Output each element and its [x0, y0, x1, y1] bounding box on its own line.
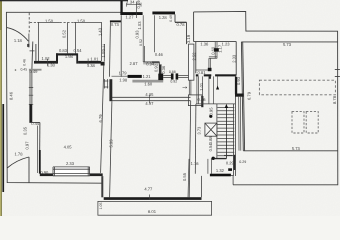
- svg-text:0.88: 0.88: [169, 70, 176, 74]
- svg-text:1.36: 1.36: [200, 41, 209, 46]
- svg-text:0.49: 0.49: [136, 0, 141, 8]
- svg-text:0.46: 0.46: [198, 97, 207, 102]
- svg-text:0.83: 0.83: [59, 48, 68, 53]
- svg-text:8.78: 8.78: [332, 95, 337, 104]
- svg-text:0.21: 0.21: [102, 44, 106, 51]
- svg-text:1.60: 1.60: [144, 82, 153, 87]
- svg-text:1.43: 1.43: [97, 27, 102, 36]
- svg-text:0.54: 0.54: [74, 48, 83, 53]
- svg-text:0.46: 0.46: [22, 59, 26, 66]
- svg-text:1.78: 1.78: [15, 152, 24, 157]
- svg-text:0.36: 0.36: [161, 65, 166, 74]
- svg-text:1.16: 1.16: [191, 161, 200, 166]
- svg-text:0.90: 0.90: [40, 170, 49, 175]
- svg-text:6.79: 6.79: [247, 91, 252, 100]
- svg-text:0.92: 0.92: [153, 63, 158, 72]
- svg-text:0.54: 0.54: [208, 143, 213, 152]
- svg-text:3.73: 3.73: [197, 126, 202, 135]
- svg-text:6.79: 6.79: [98, 114, 103, 123]
- svg-text:4.77: 4.77: [144, 187, 153, 192]
- svg-text:1.05: 1.05: [99, 203, 103, 210]
- svg-text:1.02: 1.02: [42, 56, 51, 61]
- svg-text:5.33: 5.33: [108, 139, 113, 148]
- svg-text:1.18: 1.18: [14, 38, 23, 43]
- svg-text:0.73: 0.73: [111, 22, 120, 27]
- svg-text:1.50: 1.50: [45, 18, 54, 23]
- svg-text:0.78: 0.78: [177, 22, 186, 27]
- svg-text:2.33: 2.33: [66, 161, 75, 166]
- svg-text:1.01: 1.01: [90, 57, 99, 62]
- svg-text:4.05: 4.05: [64, 144, 73, 149]
- svg-text:2.52: 2.52: [191, 52, 196, 61]
- svg-text:1.28: 1.28: [159, 15, 168, 20]
- svg-text:0.29: 0.29: [226, 160, 235, 165]
- svg-text:0.88: 0.88: [208, 136, 213, 145]
- svg-text:1.21: 1.21: [143, 74, 152, 79]
- svg-text:0.97: 0.97: [24, 141, 29, 150]
- svg-text:0.52: 0.52: [139, 39, 143, 46]
- svg-text:0.49: 0.49: [29, 69, 38, 74]
- svg-text:6.01: 6.01: [148, 209, 157, 214]
- svg-text:0.95: 0.95: [209, 107, 214, 116]
- svg-text:1.01: 1.01: [199, 82, 204, 91]
- svg-text:1.38: 1.38: [47, 63, 56, 68]
- svg-text:0.60: 0.60: [210, 46, 215, 55]
- svg-text:0.93: 0.93: [236, 76, 241, 85]
- svg-text:1.98: 1.98: [119, 77, 128, 82]
- svg-text:2.87: 2.87: [130, 61, 139, 66]
- svg-text:3.19: 3.19: [186, 34, 191, 43]
- svg-text:0.49: 0.49: [169, 15, 173, 22]
- svg-text:1.98: 1.98: [65, 54, 74, 59]
- svg-text:4.85: 4.85: [145, 92, 154, 97]
- svg-text:0.29: 0.29: [239, 160, 246, 164]
- svg-text:8.46: 8.46: [9, 91, 14, 100]
- svg-text:5.73: 5.73: [292, 146, 301, 151]
- svg-text:0.45: 0.45: [20, 67, 27, 71]
- svg-text:1.03: 1.03: [137, 21, 142, 30]
- svg-text:0.35: 0.35: [22, 126, 27, 135]
- svg-text:0.92: 0.92: [170, 79, 177, 83]
- svg-text:1.50: 1.50: [77, 18, 86, 23]
- svg-text:1.38: 1.38: [87, 63, 96, 68]
- svg-text:2.33: 2.33: [231, 54, 236, 63]
- svg-text:4.97: 4.97: [145, 101, 154, 106]
- svg-text:0.81: 0.81: [198, 70, 207, 75]
- svg-text:1.79: 1.79: [119, 71, 128, 76]
- svg-text:1.34: 1.34: [127, 0, 136, 4]
- svg-text:0.52: 0.52: [61, 29, 66, 38]
- svg-text:0.55: 0.55: [182, 172, 187, 181]
- svg-text:0.44: 0.44: [31, 121, 40, 126]
- svg-text:1.23: 1.23: [222, 41, 231, 46]
- svg-text:5.73: 5.73: [283, 42, 292, 47]
- svg-text:0.93: 0.93: [134, 30, 139, 39]
- svg-text:1.27: 1.27: [126, 14, 135, 19]
- svg-text:1.17: 1.17: [217, 44, 222, 53]
- svg-text:0.46: 0.46: [155, 52, 164, 57]
- svg-text:1.32: 1.32: [216, 168, 225, 173]
